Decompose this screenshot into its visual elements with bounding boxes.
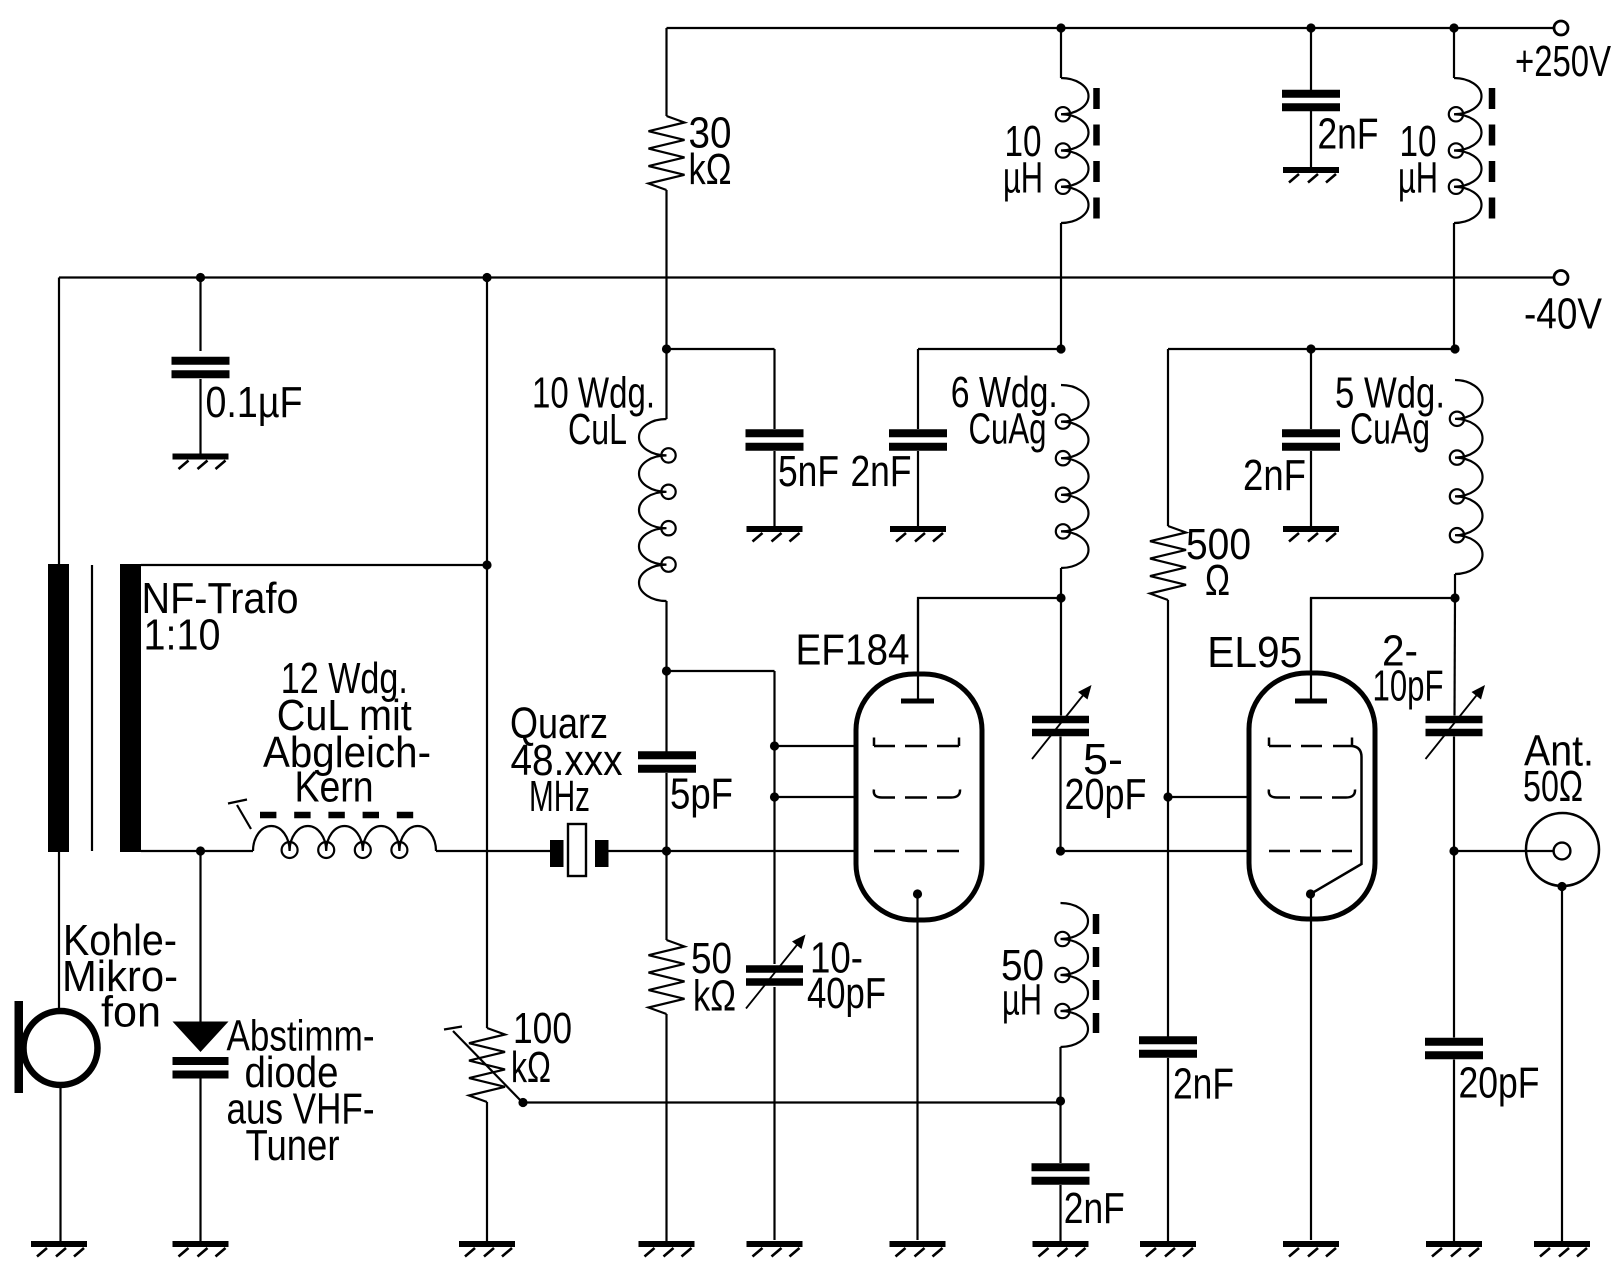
- svg-text:20pF: 20pF: [1459, 1060, 1540, 1108]
- svg-text:EF184: EF184: [796, 627, 910, 675]
- svg-text:CuL: CuL: [568, 406, 627, 454]
- svg-text:5nF: 5nF: [778, 448, 839, 496]
- svg-text:0.1µF: 0.1µF: [206, 379, 303, 427]
- svg-text:5pF: 5pF: [670, 771, 733, 819]
- svg-text:2nF: 2nF: [1173, 1061, 1234, 1109]
- svg-text:50Ω: 50Ω: [1523, 763, 1583, 811]
- svg-text:µH: µH: [1003, 155, 1043, 203]
- svg-text:EL95: EL95: [1207, 629, 1302, 677]
- svg-text:+250V: +250V: [1515, 38, 1611, 86]
- svg-text:-40V: -40V: [1524, 291, 1602, 339]
- svg-text:10pF: 10pF: [1373, 663, 1444, 711]
- svg-text:Ω: Ω: [1205, 557, 1230, 605]
- svg-text:Tuner: Tuner: [246, 1122, 340, 1170]
- svg-text:2nF: 2nF: [1318, 111, 1379, 159]
- svg-text:kΩ: kΩ: [693, 973, 736, 1021]
- svg-text:µH: µH: [1398, 155, 1438, 203]
- svg-text:2nF: 2nF: [851, 448, 912, 496]
- svg-text:40pF: 40pF: [807, 970, 886, 1018]
- svg-text:kΩ: kΩ: [511, 1044, 551, 1092]
- svg-text:CuAg: CuAg: [969, 406, 1047, 454]
- svg-text:2nF: 2nF: [1243, 452, 1306, 500]
- svg-text:2nF: 2nF: [1064, 1185, 1125, 1233]
- svg-text:MHz: MHz: [529, 773, 590, 821]
- svg-text:CuAg: CuAg: [1350, 406, 1430, 454]
- svg-text:Kern: Kern: [295, 764, 374, 812]
- svg-text:fon: fon: [101, 989, 161, 1037]
- svg-text:kΩ: kΩ: [689, 146, 732, 194]
- svg-text:20pF: 20pF: [1065, 771, 1147, 819]
- svg-text:µH: µH: [1002, 977, 1042, 1025]
- svg-text:1:10: 1:10: [144, 612, 221, 660]
